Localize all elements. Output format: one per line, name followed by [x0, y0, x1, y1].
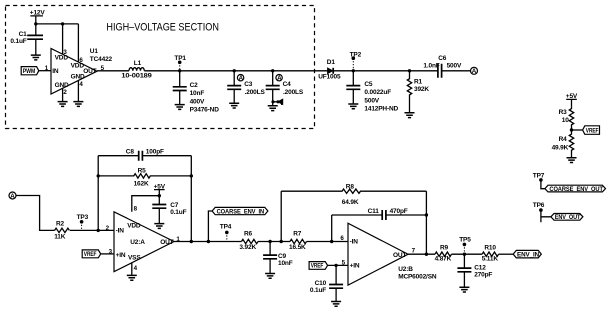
node junction R1: [408, 69, 411, 72]
svg-text:100pF: 100pF: [146, 149, 164, 156]
svg-text:392K: 392K: [414, 86, 429, 93]
net tag COARSE_ENV_IN: [208, 207, 268, 241]
node junction C5: [352, 69, 355, 72]
svg-text:0.1uF: 0.1uF: [310, 287, 326, 294]
driver U1 TC4422: [51, 49, 97, 95]
svg-text:162K: 162K: [134, 181, 149, 188]
node VREF tap: [570, 128, 573, 131]
wire C11 vertical: [331, 215, 333, 242]
svg-text:ENV_OUT: ENV_OUT: [555, 215, 581, 221]
svg-text:VREF: VREF: [84, 252, 97, 258]
resistor R4: [552, 130, 574, 158]
svg-text:11K: 11K: [54, 234, 66, 241]
svg-text:ENV_IN: ENV_IN: [517, 252, 539, 258]
svg-text:C2: C2: [190, 82, 199, 89]
svg-text:0.1uF: 0.1uF: [10, 38, 26, 45]
svg-text:64.9K: 64.9K: [342, 199, 359, 206]
wire L1 to D1: [144, 70, 328, 72]
svg-text:P3476-ND: P3476-ND: [190, 107, 220, 114]
net tag ENV_IN: [513, 250, 541, 258]
wire VREF to pin3: [101, 253, 114, 255]
wire feedback left vertical: [97, 156, 99, 231]
svg-text:VREF: VREF: [586, 128, 599, 134]
ground below C7: [154, 224, 164, 229]
wire VREF to pin5: [328, 264, 348, 266]
ground below R4: [567, 158, 577, 163]
test point TP2: [350, 52, 362, 71]
ground below C10: [331, 302, 341, 307]
svg-text:OUT: OUT: [393, 252, 406, 259]
svg-text:U2:A: U2:A: [130, 239, 145, 246]
resistor R2: [54, 220, 69, 240]
svg-text:TP5: TP5: [459, 237, 471, 244]
svg-text:5.11K: 5.11K: [482, 256, 499, 263]
capacitor C9: [263, 242, 293, 274]
node junction C9: [268, 240, 271, 243]
node junction C7: [158, 194, 161, 197]
test point TP5: [459, 237, 471, 255]
capacitor C2: [173, 71, 220, 114]
svg-text:GND: GND: [55, 82, 69, 89]
svg-text:C11: C11: [368, 208, 380, 215]
node junction output: [190, 240, 193, 243]
wire feedback right vertical: [425, 191, 427, 254]
svg-text:R3: R3: [559, 109, 568, 116]
resistor R1: [407, 71, 429, 113]
wire pin3 VDD: [62, 24, 64, 55]
svg-text:IN: IN: [52, 68, 59, 75]
svg-text:.200LS: .200LS: [283, 89, 304, 96]
svg-text:COARSE_ENV_IN: COARSE_ENV_IN: [217, 209, 265, 215]
ground below C4: [268, 106, 278, 111]
wire R8 vertical: [280, 191, 282, 241]
wire node A to R2: [16, 196, 55, 231]
ground below C1: [31, 55, 41, 60]
svg-text:TP2: TP2: [350, 52, 362, 59]
ground below C2: [175, 105, 185, 110]
capacitor C8: [98, 149, 191, 161]
node junction R8 tap: [280, 240, 283, 243]
svg-text:8: 8: [134, 205, 138, 212]
svg-text:R5: R5: [138, 167, 147, 174]
svg-text:L1: L1: [134, 60, 142, 67]
VREF flag U2:A: [82, 250, 101, 258]
svg-text:C5: C5: [364, 81, 373, 88]
wire pin4 GND: [77, 81, 79, 102]
svg-text:R6: R6: [244, 231, 253, 238]
test point TP7: [533, 173, 545, 189]
power +5V (VREF divider): [566, 93, 578, 107]
high-voltage section dashed border: [6, 6, 315, 129]
test point TP4: [220, 224, 232, 242]
node junction feedback left: [97, 229, 100, 232]
U2:B pin numbers: [340, 235, 415, 266]
wire U2:B out to R9: [408, 253, 435, 255]
svg-text:A: A: [277, 75, 282, 82]
svg-text:TC4422: TC4422: [90, 56, 113, 63]
node junction C12: [463, 253, 466, 256]
node A marker at C3: [237, 75, 243, 83]
VREF flag U2:B: [309, 262, 328, 270]
svg-text:D1: D1: [327, 59, 336, 66]
inductor L1: [121, 60, 152, 79]
capacitor C11 feedback: [332, 208, 427, 220]
wire +12V rail: [36, 23, 79, 25]
svg-text:R1: R1: [414, 78, 423, 85]
svg-text:OUT: OUT: [83, 68, 96, 75]
svg-text:TP7: TP7: [533, 173, 545, 180]
svg-text:10-00189: 10-00189: [121, 73, 152, 80]
node junction C3: [233, 69, 236, 72]
capacitor C6 series: [423, 55, 470, 78]
wire R7 to pin6: [307, 241, 349, 243]
wire feedback right vertical: [190, 156, 192, 242]
svg-text:4.87K: 4.87K: [435, 256, 452, 263]
svg-text:COARSE_ENV_OUT: COARSE_ENV_OUT: [549, 187, 603, 193]
diode D1 UF1005: [318, 59, 341, 80]
resistor R7: [289, 231, 307, 251]
ground below C9: [265, 274, 275, 279]
ground below C5: [348, 104, 358, 109]
op-amp U2:B: [348, 223, 408, 285]
test point TP6: [533, 202, 551, 222]
svg-text:R9: R9: [440, 244, 449, 251]
resistor R5: [98, 167, 191, 187]
wire R2 to -IN: [70, 229, 114, 231]
resistor R9: [435, 244, 452, 262]
svg-text:1: 1: [45, 65, 49, 72]
U1 pin numbers: [63, 49, 104, 96]
test point TP1: [174, 55, 186, 71]
capacitor C10: [310, 265, 343, 301]
node A input (bottom): [9, 192, 16, 200]
svg-text:470pF: 470pF: [390, 208, 408, 215]
ground below C3: [229, 103, 239, 108]
svg-text:500V: 500V: [364, 97, 379, 104]
svg-text:MCP6002/SN: MCP6002/SN: [398, 273, 437, 280]
svg-text:4: 4: [134, 265, 138, 272]
node junction C10: [334, 264, 337, 267]
svg-text:C8: C8: [126, 149, 135, 156]
ground below pin2: [58, 102, 68, 107]
node A marker at C4: [276, 75, 282, 83]
svg-text:10nF: 10nF: [278, 260, 293, 267]
capacitor C3: [227, 71, 265, 103]
wire U1 out to L1: [97, 70, 129, 72]
wire R9 to R10: [452, 253, 483, 255]
svg-text:U1: U1: [90, 48, 99, 55]
svg-text:PWM: PWM: [23, 69, 35, 75]
node junction C11 tap: [330, 240, 333, 243]
svg-text:HIGH–VOLTAGE SECTION: HIGH–VOLTAGE SECTION: [106, 22, 218, 34]
svg-text:2: 2: [63, 89, 67, 96]
ground below R1: [405, 113, 415, 118]
svg-text:R2: R2: [56, 220, 65, 227]
net tag COARSE_ENV_OUT: [545, 185, 606, 193]
svg-text:TP4: TP4: [220, 224, 232, 231]
node junction at C1: [34, 22, 37, 25]
chassis tie at C4: [271, 99, 282, 105]
power +5V (op amp): [154, 183, 166, 195]
resistor R10: [482, 244, 499, 262]
capacitor C4: [266, 71, 304, 106]
svg-text:10: 10: [562, 117, 569, 124]
node junction coarse env in: [207, 240, 210, 243]
svg-text:R10: R10: [484, 244, 496, 251]
wire pin2 GND: [62, 88, 64, 101]
svg-text:6: 6: [340, 235, 344, 242]
node A marker right: [471, 67, 478, 75]
svg-text:R7: R7: [293, 231, 302, 238]
svg-text:-IN: -IN: [350, 238, 359, 245]
node junction C11 right: [425, 213, 428, 216]
U2:A pin numbers: [106, 205, 181, 272]
svg-text:3.92K: 3.92K: [239, 244, 256, 251]
svg-text:TP3: TP3: [77, 214, 89, 221]
svg-text:-IN: -IN: [116, 227, 125, 234]
node junction at pin3 branch: [61, 22, 64, 25]
ground below pin4: [73, 102, 83, 107]
VREF flag right: [583, 126, 600, 135]
node junction R5 right: [190, 174, 193, 177]
ground below U2:A: [127, 275, 137, 280]
svg-text:10nF: 10nF: [190, 90, 205, 97]
svg-text:C3: C3: [244, 81, 253, 88]
resistor R8 feedback: [281, 183, 426, 206]
wire pin6 VDD: [77, 24, 79, 62]
svg-text:U2:B: U2:B: [398, 266, 413, 273]
svg-text:4: 4: [79, 81, 83, 88]
capacitor C12: [457, 254, 492, 287]
svg-text:+IN: +IN: [350, 263, 360, 270]
svg-text:TP6: TP6: [533, 202, 545, 209]
node junction C4: [271, 69, 274, 72]
svg-text:VDD: VDD: [127, 223, 141, 230]
node junction output U2:B: [425, 253, 428, 256]
svg-text:3: 3: [63, 49, 67, 56]
svg-text:0.1uF: 0.1uF: [170, 209, 186, 216]
svg-text:A: A: [472, 68, 477, 75]
svg-text:C4: C4: [283, 81, 292, 88]
svg-text:6: 6: [79, 57, 83, 64]
svg-text:16.5K: 16.5K: [289, 244, 306, 251]
node junction C2: [178, 69, 181, 72]
svg-text:C6: C6: [438, 55, 447, 62]
svg-text:+IN: +IN: [116, 252, 126, 259]
wire U2:A out: [174, 241, 242, 243]
svg-text:OUT: OUT: [160, 239, 173, 246]
capacitor C5: [346, 71, 398, 113]
wire R10 to ENV_IN: [499, 253, 514, 255]
svg-text:1.0nF: 1.0nF: [423, 62, 439, 69]
node junction R5 left: [97, 174, 100, 177]
wire PWM to pin1: [39, 70, 51, 72]
wire D1 to C6: [333, 70, 438, 72]
test point TP3: [77, 214, 89, 230]
svg-text:A: A: [239, 75, 244, 82]
svg-text:0.0022uF: 0.0022uF: [364, 89, 391, 96]
svg-text:UF1005: UF1005: [318, 74, 341, 81]
power +12V: [30, 10, 46, 24]
wire +5V to pin8 and C7: [132, 196, 160, 212]
svg-text:400V: 400V: [190, 98, 205, 105]
capacitor C1: [10, 24, 43, 55]
svg-text:C7: C7: [170, 202, 179, 209]
svg-text:2: 2: [106, 225, 110, 232]
svg-text:49.9K: 49.9K: [552, 144, 569, 151]
svg-text:VREF: VREF: [311, 264, 324, 270]
PWM input flag: [21, 67, 39, 75]
op-amp U2:A: [114, 212, 174, 272]
svg-text:R8: R8: [346, 183, 355, 190]
ground below C12: [459, 287, 469, 292]
capacitor C7: [152, 202, 186, 224]
svg-text:A: A: [10, 193, 15, 200]
wire R6 to R7: [258, 241, 290, 243]
svg-text:1412PH-ND: 1412PH-ND: [364, 106, 398, 113]
wire pin4 to ground: [131, 263, 133, 276]
resistor R6: [239, 231, 258, 251]
svg-text:.200LS: .200LS: [245, 89, 266, 96]
net tag ENV_OUT: [551, 214, 583, 222]
svg-text:R4: R4: [559, 136, 568, 143]
wire to VREF flag: [572, 129, 583, 131]
resistor R3: [559, 107, 574, 130]
svg-text:VSS: VSS: [128, 254, 141, 261]
svg-text:500V: 500V: [447, 62, 462, 69]
svg-text:270pF: 270pF: [474, 271, 492, 278]
